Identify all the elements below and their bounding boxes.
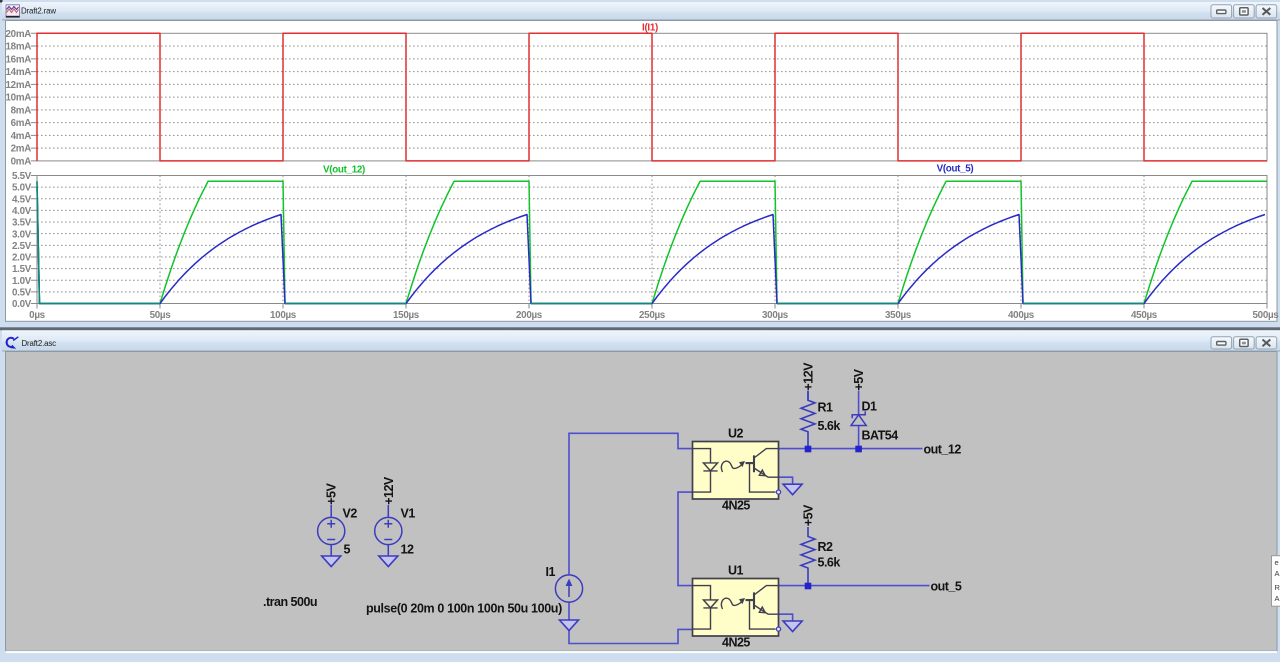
svg-text:14mA: 14mA [6,67,32,78]
svg-text:V(out_12): V(out_12) [323,164,365,175]
svg-text:U2: U2 [728,427,744,441]
svg-text:V1: V1 [401,507,416,521]
svg-text:5.5V: 5.5V [12,171,32,182]
svg-text:4.5V: 4.5V [12,194,32,205]
svg-text:100µs: 100µs [270,310,297,321]
svg-text:A: A [1275,569,1280,578]
svg-text:D1: D1 [862,400,878,414]
svg-text:200µs: 200µs [516,310,543,321]
svg-text:5.6k: 5.6k [818,419,841,433]
svg-text:250µs: 250µs [639,310,666,321]
svg-text:+5V: +5V [852,368,866,390]
svg-text:18mA: 18mA [6,42,32,53]
svg-text:pulse(0 20m 0 100n 100n 50u 10: pulse(0 20m 0 100n 100n 50u 100u) [366,602,562,616]
svg-text:5.0V: 5.0V [12,183,32,194]
svg-text:out_12: out_12 [924,443,962,457]
svg-text:5: 5 [344,543,351,557]
svg-text:1.5V: 1.5V [12,264,32,275]
svg-text:Draft2.raw: Draft2.raw [21,7,56,16]
svg-text:350µs: 350µs [885,310,912,321]
svg-text:0µs: 0µs [29,310,45,321]
svg-text:0.5V: 0.5V [12,288,32,299]
svg-text:V2: V2 [343,507,358,521]
svg-text:I1: I1 [546,565,556,579]
svg-text:.tran 500u: .tran 500u [263,595,317,609]
svg-text:R2: R2 [818,540,834,554]
svg-text:R1: R1 [818,401,834,415]
svg-text:+5V: +5V [325,483,339,505]
svg-text:+5V: +5V [802,504,816,526]
svg-text:5.6k: 5.6k [818,556,841,570]
svg-text:6mA: 6mA [11,118,32,129]
svg-text:R: R [1275,583,1280,592]
svg-text:0mA: 0mA [11,157,32,168]
svg-text:2.0V: 2.0V [12,253,32,264]
svg-text:8mA: 8mA [11,106,32,117]
svg-text:12mA: 12mA [6,80,32,91]
svg-text:1.0V: 1.0V [12,276,32,287]
svg-text:I(I1): I(I1) [642,22,658,33]
svg-text:out_5: out_5 [931,580,962,594]
svg-text:V(out_5): V(out_5) [937,163,974,174]
svg-text:4.0V: 4.0V [12,206,32,217]
svg-text:3.5V: 3.5V [12,218,32,229]
svg-text:450µs: 450µs [1131,310,1158,321]
svg-text:50µs: 50µs [150,310,172,321]
svg-text:A: A [1275,594,1280,603]
svg-text:e: e [1275,558,1279,567]
svg-text:3.0V: 3.0V [12,229,32,240]
svg-text:4N25: 4N25 [722,499,750,513]
svg-text:16mA: 16mA [6,54,32,65]
svg-text:+12V: +12V [802,362,816,391]
svg-text:10mA: 10mA [6,93,32,104]
svg-text:Draft2.asc: Draft2.asc [22,339,57,348]
svg-text:4N25: 4N25 [722,636,750,650]
svg-text:4mA: 4mA [11,131,32,142]
svg-text:U1: U1 [728,564,744,578]
svg-text:400µs: 400µs [1008,310,1035,321]
svg-text:300µs: 300µs [762,310,789,321]
svg-text:2.5V: 2.5V [12,241,32,252]
svg-text:+12V: +12V [382,476,396,505]
svg-text:12: 12 [401,543,414,557]
svg-text:BAT54: BAT54 [862,429,899,443]
svg-text:20mA: 20mA [6,29,32,40]
svg-text:0.0V: 0.0V [12,299,32,310]
svg-text:500µs: 500µs [1253,310,1280,321]
svg-text:2mA: 2mA [11,144,32,155]
svg-text:150µs: 150µs [393,310,420,321]
